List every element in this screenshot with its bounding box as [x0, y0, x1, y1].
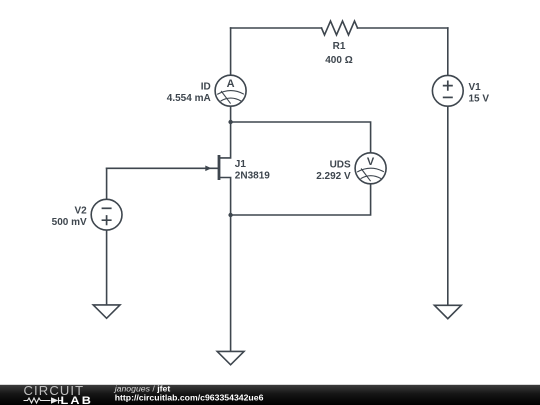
svg-text:LAB: LAB — [60, 394, 93, 405]
svg-text:2N3819: 2N3819 — [235, 171, 270, 182]
svg-text:4.554 mA: 4.554 mA — [167, 93, 211, 104]
transistor J1 (JFET) — [205, 155, 220, 180]
svg-text:A: A — [227, 78, 235, 90]
svg-text:http://circuitlab.com/c9633543: http://circuitlab.com/c963354342ue6 — [115, 392, 264, 402]
voltage source V2 — [91, 199, 122, 230]
svg-text:R1: R1 — [333, 41, 346, 52]
svg-text:400 Ω: 400 Ω — [325, 55, 352, 66]
wire node B to middle ground — [230, 215, 232, 351]
label R1 value — [325, 41, 352, 66]
ground (left, V2) — [93, 305, 120, 318]
svg-text:V1: V1 — [469, 82, 482, 93]
wire V1 top lead — [447, 28, 449, 75]
label ID value — [167, 82, 211, 105]
wire JFET drain lead — [219, 122, 231, 158]
ground (right, V1) — [434, 305, 461, 318]
resistor R1 — [322, 21, 358, 35]
voltmeter UDS — [355, 153, 386, 184]
voltage source V1 — [432, 75, 463, 106]
ammeter ID — [215, 75, 246, 106]
wire ammeter to node A — [230, 106, 232, 122]
svg-text:UDS: UDS — [330, 159, 351, 170]
node B junction dot — [228, 213, 232, 217]
node A junction dot — [228, 120, 232, 124]
label V1 value — [469, 82, 490, 105]
svg-text:V2: V2 — [74, 206, 87, 217]
wire top rail left segment — [231, 27, 322, 29]
wire gate rail — [107, 167, 218, 169]
label V2 value — [52, 206, 87, 229]
wire node A to voltmeter top — [231, 122, 371, 153]
ground (middle) — [217, 351, 244, 364]
svg-text:2.292 V: 2.292 V — [316, 171, 351, 182]
svg-text:V: V — [367, 156, 375, 168]
svg-text:500 mV: 500 mV — [52, 217, 87, 228]
svg-text:J1: J1 — [235, 159, 247, 170]
wire drain rail top (node to ammeter) — [230, 28, 232, 75]
wire voltmeter bottom to node B — [231, 184, 371, 215]
svg-text:15 V: 15 V — [469, 93, 490, 104]
label UDS value — [316, 159, 351, 182]
logo resistor-diode glyph — [24, 397, 63, 403]
wire top rail right segment — [358, 27, 448, 29]
wire V2 top lead — [106, 168, 108, 199]
wire V1 bottom lead — [447, 106, 449, 305]
wire V2 bottom lead — [106, 230, 108, 305]
label J1 2N3819 — [235, 159, 270, 182]
svg-text:ID: ID — [201, 82, 211, 93]
wire JFET source lead — [219, 178, 231, 216]
